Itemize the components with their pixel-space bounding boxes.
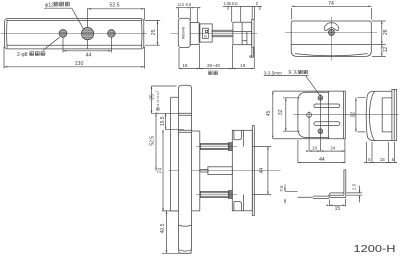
svg-text:6.5: 6.5	[186, 2, 192, 7]
svg-text:(: (	[155, 90, 159, 92]
bar inner tangent lines (plate edges)	[6, 20, 142, 45]
svg-text:30~40: 30~40	[207, 63, 220, 68]
dim 32 (grip)	[356, 98, 366, 132]
face plate (edge-on)	[252, 126, 254, 216]
inner right edge line	[342, 91, 344, 139]
body plate	[291, 21, 371, 56]
extension line from left hole down	[62, 38, 64, 53]
svg-text:44: 44	[319, 157, 325, 163]
grip inner contour	[369, 91, 374, 140]
svg-text:5: 5	[368, 157, 371, 162]
hole phi12 centre (hatched)	[81, 27, 93, 39]
dim 52.5	[155, 113, 157, 170]
hole phi8 left (hatched)	[59, 30, 67, 38]
dim 2.5	[347, 186, 363, 203]
svg-text:15: 15	[380, 157, 385, 162]
dim square-8 (spindle)	[205, 30, 207, 32]
svg-text:11: 11	[234, 1, 238, 6]
slot upper	[314, 104, 340, 108]
grip profile	[366, 91, 392, 140]
dim 40.5	[162, 211, 192, 253]
bar left end cap line	[6, 20, 8, 48]
svg-text:2: 2	[256, 1, 259, 6]
centerline	[1, 33, 148, 35]
svg-text:8: 8	[203, 35, 208, 38]
hole phi8 right (hatched)	[108, 30, 116, 38]
slide allowance note (vertical)	[155, 90, 160, 114]
extension line from right hole down	[110, 37, 112, 52]
lower strip	[298, 196, 329, 198]
screw hole top (hatched)	[318, 95, 323, 100]
svg-text:18: 18	[240, 63, 246, 68]
recessed cup (rounded D shape)	[298, 92, 329, 137]
mounting plate edge-on	[392, 89, 397, 140]
dim 25 (right of bar)	[145, 21, 160, 46]
square spindle (section)	[200, 169, 208, 172]
dim 130 (overall)	[4, 47, 145, 69]
centerline	[169, 170, 281, 172]
lock case (section)	[233, 22, 252, 45]
svg-text:74: 74	[328, 1, 334, 7]
svg-text:3-3.5mm: 3-3.5mm	[264, 70, 282, 75]
svg-text:28: 28	[383, 29, 389, 35]
svg-text:45: 45	[266, 110, 272, 116]
svg-text:15: 15	[335, 206, 341, 212]
svg-text:11.5: 11.5	[177, 2, 184, 7]
dim 32	[283, 98, 300, 131]
svg-text:15.5: 15.5	[160, 116, 166, 126]
fold line	[328, 91, 330, 139]
spindle hole (open)	[307, 113, 312, 118]
leader to phi8 hole	[43, 37, 60, 50]
thumbturn wings	[324, 23, 339, 31]
bottom dim row 18 / 30~40 / 18 with door thickness	[179, 45, 254, 69]
dim 44 overall	[298, 140, 345, 163]
svg-text:2-φ8: 2-φ8	[17, 52, 28, 58]
svg-text:74: 74	[157, 168, 163, 174]
slide piece bottom joint (double line)	[179, 113, 192, 115]
vertical centerline	[331, 17, 333, 61]
svg-text:): )	[155, 112, 159, 113]
dim row 11.5 / 6.5	[177, 7, 201, 22]
bracket outer outline (open at left)	[273, 91, 346, 139]
svg-text:WB048: WB048	[182, 27, 186, 39]
spindle bearing box	[203, 28, 209, 38]
svg-text:130: 130	[75, 61, 84, 67]
thumbturn spindle (hatched)	[328, 29, 334, 35]
square spindle shaft	[212, 30, 233, 37]
svg-text:52.5: 52.5	[149, 136, 155, 146]
door thickness note (tobira-atsu)	[208, 71, 212, 74]
centerline	[171, 32, 258, 34]
grip body	[178, 18, 190, 47]
bar outer silhouette (grip edges)	[5, 19, 144, 49]
svg-text:10: 10	[312, 146, 318, 151]
dim 15	[330, 199, 346, 206]
lock case body	[232, 130, 252, 211]
horizontal centerline	[285, 31, 377, 33]
svg-text:25: 25	[150, 94, 156, 100]
grip pad rect	[382, 98, 392, 132]
base plate left strip	[171, 97, 179, 211]
bar right end cap line	[141, 20, 143, 48]
dim 44 between screws	[253, 147, 271, 195]
svg-text:24: 24	[330, 146, 336, 151]
dim 15.5	[166, 113, 184, 129]
strip bottom line	[330, 197, 346, 199]
vertical arm	[344, 170, 346, 198]
screw hole bottom (hatched)	[318, 129, 323, 134]
jog step	[329, 193, 331, 199]
dims 28 / 12 (right side)	[372, 21, 386, 56]
horizontal centerline	[294, 114, 399, 116]
dished bottom inner line	[295, 54, 368, 56]
case bottom hook	[234, 195, 244, 211]
handle bar (front slide bar)	[179, 85, 192, 253]
dims 10 / 24	[309, 139, 345, 163]
face plate	[252, 20, 254, 47]
grip top joint lines	[179, 130, 192, 132]
dim row 1.5 / 6.5 / 11 / 2	[223, 6, 262, 22]
svg-text:φ12: φ12	[45, 3, 54, 9]
upper fixing screw	[200, 144, 228, 150]
centerline through spindle hole	[308, 112, 310, 152]
latch arm	[250, 47, 254, 57]
flange plate	[190, 23, 199, 45]
svg-text:52.5: 52.5	[109, 3, 119, 9]
dim 45	[272, 91, 274, 139]
svg-text:32: 32	[278, 109, 284, 115]
svg-text:18: 18	[182, 63, 188, 68]
svg-text:12: 12	[383, 47, 389, 53]
dim 7.5	[285, 185, 298, 204]
divider line	[291, 43, 371, 45]
lower cap joint arc	[179, 225, 192, 226]
case top hook	[234, 130, 244, 146]
dim 52.5	[88, 8, 145, 10]
svg-text:1200-H: 1200-H	[354, 244, 396, 255]
extension line from centre hole up and down	[87, 8, 89, 48]
dims 5 / 15 / 5	[366, 142, 397, 163]
svg-text:7.5: 7.5	[279, 185, 284, 192]
svg-text:2.5: 2.5	[352, 183, 357, 190]
svg-text:44: 44	[259, 168, 265, 174]
svg-text:40.5: 40.5	[160, 223, 166, 233]
svg-text:25: 25	[151, 29, 157, 35]
screw centerlines	[196, 147, 237, 195]
slot lower	[314, 122, 340, 126]
lower fixing screw	[200, 192, 228, 198]
svg-text:44: 44	[86, 53, 92, 59]
upper strip	[330, 193, 344, 195]
bottom cap inner arc	[179, 250, 191, 251]
base plate right strip	[192, 131, 200, 211]
label underline and leader to phi12 hole	[44, 8, 83, 29]
centerline through screw holes	[319, 94, 321, 151]
dim 74	[162, 130, 164, 211]
dim 44 between small holes	[63, 50, 111, 52]
dim 74	[291, 6, 371, 19]
dim 25 with slide note	[151, 86, 184, 113]
svg-text:32: 32	[350, 112, 356, 118]
case internal lines	[233, 22, 252, 45]
base plate on door face	[200, 24, 212, 42]
